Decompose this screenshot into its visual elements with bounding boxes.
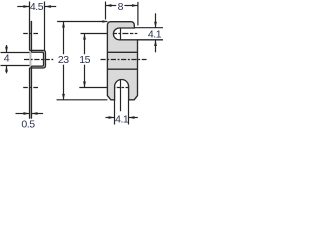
dim 4.1 bottom: dimension line tails [106, 117, 115, 119]
dim 0.5: dimension line tails [16, 113, 30, 115]
dim 4.5: dimension line tails [17, 6, 29, 8]
svg-text:4.5: 4.5 [30, 1, 44, 13]
right view: vertical centre line [120, 26, 122, 111]
dim 0.5: left arrow [24, 112, 30, 115]
dim 4.1 bottom: left arrow [109, 116, 115, 119]
dim 4: dimension line verticals [6, 45, 8, 52]
dim 15: bottom extension line / u-slot centre [79, 87, 107, 89]
right view: slot top edge extension to 4.1 dim [134, 27, 163, 29]
dim 4: down arrow [5, 47, 8, 53]
dim 4.1 bottom: extension lines [114, 100, 116, 124]
dim 23: extension end arrow at plate [102, 20, 107, 22]
svg-text:4: 4 [4, 53, 10, 65]
left view: u-slot centre tick (dash-dot) [23, 87, 38, 89]
right view: bend line upper [107, 51, 137, 53]
dim 4.1 top: up arrow [154, 40, 157, 46]
right view: u-slot centre line inside plate (dash-dot) [107, 87, 137, 89]
left view: bump centre line (dash-dot) [24, 59, 53, 61]
left view: joggle bump inner surface [32, 52, 44, 66]
dim 4.1 bottom: right arrow [129, 116, 135, 119]
dim 15: bottom arrow [83, 82, 86, 88]
right view: horizontal centre line through bends (dash-dot) [101, 59, 147, 61]
dim 0.5: right arrow [32, 112, 38, 115]
svg-text:0.5: 0.5 [21, 118, 35, 128]
svg-text:8: 8 [118, 1, 124, 13]
dim 8: right arrow [132, 4, 138, 7]
svg-text:4.1: 4.1 [148, 28, 162, 40]
right view: top slot centre line inside slot (dash-dot) [114, 33, 138, 35]
right view: plate outline with top slot, u-slot, chamfers [107, 22, 137, 100]
svg-text:4.1: 4.1 [115, 114, 129, 126]
dim 4.5: right extension line [44, 2, 46, 51]
dim 15: top extension line / slot centre [81, 33, 114, 35]
left view: joggle bump outer surface [30, 50, 46, 68]
dim 15: top arrow [83, 34, 86, 40]
left view: web inner (right) face line [31, 21, 33, 52]
dim 23: top arrow [62, 22, 65, 28]
dim 4.5: left arrow [23, 5, 29, 8]
dim 8: left arrow [106, 4, 112, 7]
svg-text:23: 23 [58, 54, 69, 66]
dim 4.1 top: down arrow [154, 22, 157, 28]
dim 8: dimension line [106, 5, 117, 7]
dim 4: up arrow [5, 66, 8, 72]
dim 8: left extension line [105, 2, 107, 20]
dim 23: bottom extension line [57, 99, 108, 101]
left view: joggle bump fill [30, 50, 46, 68]
left view: top-slot centre tick (dash-dot) [23, 33, 38, 35]
dim 23: dimension line [63, 22, 65, 55]
dim 23: top extension line [57, 21, 107, 23]
left view: sheet web fill [30, 21, 32, 119]
dim 8: right extension line [137, 2, 139, 26]
dim 4.1 top: dimension line verticals [155, 13, 157, 27]
right view: slot bottom edge extension to 4.1 dim [138, 39, 164, 41]
dim 23: bottom arrow [62, 94, 65, 100]
dim 4.5: right arrow [45, 5, 51, 8]
left view: web outer (left) face line [29, 2, 31, 51]
dim 15: dimension line [84, 34, 86, 55]
svg-text:15: 15 [79, 54, 90, 66]
right view: bend line lower [107, 68, 137, 70]
dim 4: extension lines [1, 52, 30, 54]
